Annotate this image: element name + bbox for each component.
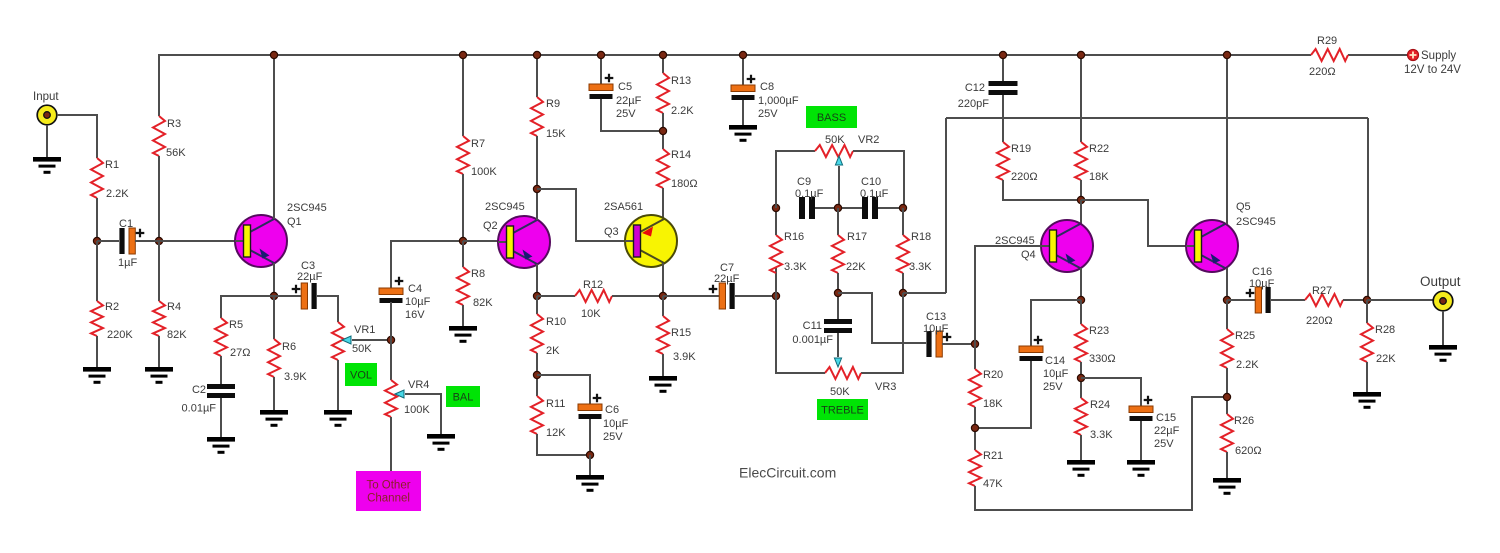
svg-text:Q4: Q4	[1021, 249, 1036, 261]
label BAL box	[446, 386, 480, 407]
wire VR4 wiper to ground	[405, 394, 441, 434]
junction C6 bottom	[586, 451, 593, 458]
potentiometer VR2 50K track	[815, 145, 853, 157]
svg-text:Supply: Supply	[1421, 50, 1456, 62]
svg-text:12V to 24V: 12V to 24V	[1404, 64, 1461, 76]
wire Q3 node to R15	[662, 296, 664, 316]
junction rail R22	[1077, 51, 1084, 58]
resistor R8	[457, 267, 469, 305]
resistor R12	[575, 290, 612, 302]
svg-text:3.3K: 3.3K	[784, 261, 807, 273]
svg-text:1,000µF: 1,000µF	[758, 95, 799, 107]
svg-text:220Ω: 220Ω	[1011, 171, 1038, 183]
wire R21 to feedback bottom	[975, 397, 1227, 510]
wire Q1 emitter down	[273, 263, 275, 296]
wire rail to R22	[1080, 55, 1082, 142]
resistor R25	[1221, 329, 1233, 368]
capacitor C7 22uF	[709, 262, 740, 309]
resistor R2	[91, 301, 103, 336]
svg-text:22µF: 22µF	[1154, 425, 1180, 437]
potentiometer VR4 100K track	[385, 380, 397, 417]
wire node A to R2	[96, 241, 98, 301]
wire node H to R20	[974, 344, 976, 369]
svg-text:22K: 22K	[846, 261, 866, 273]
junction K R20-R21-C14	[971, 424, 978, 431]
input jack J1	[37, 105, 57, 125]
wire R9 to Q2 collector	[536, 136, 538, 220]
node Q5 emitter junction	[1223, 296, 1230, 303]
wire rail to C12	[1002, 55, 1004, 81]
svg-text:C16: C16	[1252, 266, 1272, 278]
ground VR4 wiper	[427, 434, 455, 451]
wire emitter node to R6	[273, 296, 275, 339]
VR4 wiper arrow	[395, 390, 404, 398]
capacitor C10 0.1uF	[860, 176, 889, 219]
svg-text:220K: 220K	[107, 329, 133, 341]
wire VR2 right end down	[853, 151, 904, 208]
wire R5 to C2	[220, 356, 222, 384]
svg-text:R14: R14	[671, 149, 691, 161]
wire junction I to Q5 base	[1081, 200, 1186, 246]
svg-text:220Ω: 220Ω	[1309, 66, 1336, 78]
svg-text:25V: 25V	[1043, 381, 1063, 393]
svg-text:C12: C12	[965, 82, 985, 94]
wire R20 to junction K	[974, 407, 976, 450]
svg-text:R20: R20	[983, 369, 1003, 381]
svg-text:22µF: 22µF	[714, 273, 740, 285]
wire Q5 emitter to C16	[1227, 299, 1255, 301]
wire R7 to Q2 base node	[462, 174, 464, 241]
node Q4 emitter junction	[1077, 296, 1084, 303]
wire Q2 emitter node to R12	[537, 295, 575, 297]
resistor R6	[268, 339, 280, 377]
wire VR1 to ground	[337, 360, 339, 410]
wire C10 right to junction	[878, 207, 903, 209]
capacitor C6 10uF	[578, 394, 629, 443]
node Q2 emitter junction	[533, 292, 540, 299]
svg-text:10µF: 10µF	[405, 296, 431, 308]
svg-text:22µF: 22µF	[616, 95, 642, 107]
capacitor C3 22uF	[292, 260, 323, 309]
resistor R21	[969, 450, 981, 486]
svg-text:C11: C11	[803, 320, 822, 332]
capacitor C16 10uF	[1246, 266, 1275, 313]
capacitor C12 220pF	[958, 81, 1018, 110]
svg-text:2SC945: 2SC945	[485, 201, 525, 213]
wire junction to C6 top	[537, 375, 590, 404]
wire node E down to VR3 left	[776, 296, 825, 373]
svg-text:620Ω: 620Ω	[1235, 445, 1262, 457]
svg-text:R11: R11	[546, 398, 565, 410]
wire rail to C5	[600, 55, 602, 84]
wire VR1 wiper to node C	[352, 339, 391, 341]
wire C9 left junction up to VR2	[776, 151, 815, 208]
wire node B to R4	[158, 241, 160, 301]
junction R13 R14 C5	[659, 127, 666, 134]
wire R12 to Q3 collector node	[612, 295, 663, 297]
svg-text:82K: 82K	[167, 329, 187, 341]
capacitor C5 22uF	[589, 74, 642, 120]
wire R4 to ground	[158, 336, 160, 367]
wire C14 bottom to junction K	[975, 361, 1031, 428]
wire C5 to R13 junction	[601, 99, 663, 131]
resistor R11	[531, 396, 543, 434]
node Q3 collector junction	[659, 292, 666, 299]
wire C11 to VR3 wiper	[837, 333, 839, 357]
resistor R22	[1075, 142, 1087, 180]
label To Other Channel box	[356, 471, 421, 511]
svg-text:10µF: 10µF	[603, 418, 629, 430]
svg-text:22K: 22K	[1376, 353, 1396, 365]
junction I R19-R22-Q4C	[1077, 196, 1084, 203]
wire Q2 emitter to R10	[536, 296, 538, 314]
wire R25 to junction L	[1226, 368, 1228, 414]
wire C8 to ground	[742, 100, 744, 125]
junction G R18-VR3-feedback	[899, 289, 906, 296]
svg-text:Q2: Q2	[483, 220, 498, 232]
wire R15 to ground	[662, 354, 664, 376]
wire R18 to junction G	[902, 273, 904, 293]
wire node C to VR4	[390, 340, 392, 380]
resistor R18	[897, 235, 909, 273]
wire junction to R17	[837, 208, 839, 235]
resistor R17	[832, 235, 844, 273]
svg-text:R19: R19	[1011, 143, 1031, 155]
svg-text:R28: R28	[1375, 324, 1395, 336]
label VOL box	[345, 363, 377, 386]
wire R3 to node B	[158, 156, 160, 241]
ground output jack	[1429, 345, 1457, 362]
svg-text:C2: C2	[192, 384, 206, 396]
svg-text:10µF: 10µF	[923, 323, 949, 335]
wire R14 to Q3 emitter	[662, 188, 664, 219]
svg-text:47K: 47K	[983, 478, 1003, 490]
svg-text:82K: 82K	[473, 297, 493, 309]
svg-text:3.9K: 3.9K	[673, 351, 696, 363]
svg-text:22µF: 22µF	[297, 271, 323, 283]
wire rail to R7	[462, 55, 464, 136]
wire R13 to junction	[662, 113, 664, 149]
svg-text:Channel: Channel	[367, 493, 410, 505]
svg-text:VR4: VR4	[408, 379, 429, 391]
wire rail to R13	[662, 55, 664, 73]
svg-text:C8: C8	[760, 81, 774, 93]
resistor R5	[215, 318, 227, 356]
junction C9-C10-R17	[834, 204, 841, 211]
resistor R24	[1075, 398, 1087, 435]
junction J R23-R24-C15	[1077, 374, 1084, 381]
wire C6 junction to ground	[589, 455, 591, 475]
wire junction G to feedback riser	[903, 292, 946, 294]
svg-text:VR1: VR1	[354, 324, 375, 336]
svg-text:56K: 56K	[166, 147, 186, 159]
wire R6 to ground	[273, 377, 275, 410]
wire input jack to ground	[46, 125, 48, 157]
VR3 wiper arrow	[834, 358, 841, 367]
svg-text:VR3: VR3	[875, 381, 896, 393]
junction rail Q1 collector	[270, 51, 277, 58]
svg-text:3.3K: 3.3K	[909, 261, 932, 273]
svg-text:3.3K: 3.3K	[1090, 429, 1113, 441]
svg-text:C4: C4	[408, 283, 422, 295]
wire rail to supply terminal	[1348, 54, 1408, 56]
svg-text:VR2: VR2	[858, 134, 879, 146]
svg-text:2.2K: 2.2K	[106, 188, 129, 200]
wire Q3 node to C7	[663, 295, 719, 297]
label BASS box	[806, 106, 857, 128]
svg-text:12K: 12K	[546, 427, 566, 439]
resistor R10	[531, 314, 543, 353]
svg-text:R17: R17	[847, 231, 867, 243]
svg-text:Output: Output	[1420, 274, 1461, 289]
capacitor C15 22uF	[1129, 396, 1180, 450]
transistor Q3 2SA561	[625, 215, 677, 267]
wire output node to jack	[1367, 299, 1433, 301]
resistor R16	[770, 235, 782, 273]
svg-text:C15: C15	[1156, 412, 1176, 424]
wire R10 to R11 junction	[536, 353, 538, 396]
svg-text:C5: C5	[618, 81, 632, 93]
supply terminal	[1407, 49, 1418, 60]
wire rail to Q5 collector	[1226, 55, 1228, 224]
ground R6	[260, 410, 288, 427]
svg-text:R7: R7	[471, 138, 485, 150]
svg-text:C1: C1	[119, 218, 133, 230]
wire C1 to Q1 base	[135, 240, 235, 242]
capacitor C11 0.001uF	[792, 319, 852, 346]
junction rail C8	[739, 51, 746, 58]
svg-text:R27: R27	[1312, 285, 1332, 297]
transistor Q1 2SC945	[235, 215, 287, 267]
svg-text:R6: R6	[282, 341, 296, 353]
wire junction G down to VR3 right	[861, 293, 903, 373]
wire Q5 emitter down	[1226, 268, 1228, 300]
junction C9 left	[772, 204, 779, 211]
node A junction C1-R1-R2	[93, 237, 100, 244]
svg-text:15K: 15K	[546, 128, 566, 140]
wire junction I down to Q4 collector	[1080, 200, 1082, 224]
ground R8	[449, 326, 477, 343]
svg-text:0.1µF: 0.1µF	[860, 188, 889, 200]
wire Q4 emitter to C14 top	[1031, 300, 1081, 346]
svg-text:BASS: BASS	[817, 112, 846, 124]
wire R27 to output node	[1343, 299, 1367, 301]
capacitor C8 1000uF	[731, 75, 799, 120]
svg-text:BAL: BAL	[453, 392, 474, 404]
svg-text:50K: 50K	[352, 343, 372, 355]
wire emitter node to C3	[274, 295, 301, 297]
svg-text:Q3: Q3	[604, 226, 619, 238]
potentiometer VR1 50K track	[332, 322, 344, 360]
wire tone left column up	[775, 268, 777, 296]
node Q2 collector junction	[533, 185, 540, 192]
svg-text:2SC945: 2SC945	[287, 202, 327, 214]
svg-text:25V: 25V	[758, 108, 778, 120]
svg-text:25V: 25V	[1154, 438, 1174, 450]
junction rail R13	[659, 51, 666, 58]
ground R4	[145, 367, 173, 384]
output jack J2	[1433, 291, 1453, 311]
svg-text:R2: R2	[105, 301, 119, 313]
wire junction J to C15 top	[1081, 378, 1141, 406]
ground R24	[1067, 460, 1095, 477]
svg-text:18K: 18K	[1089, 171, 1109, 183]
svg-text:18K: 18K	[983, 398, 1003, 410]
transistor Q5 2SC945	[1186, 220, 1238, 272]
svg-text:R22: R22	[1089, 143, 1109, 155]
wire R19 to junction I	[1003, 180, 1081, 200]
VR1 wiper arrow	[342, 336, 351, 344]
label TREBLE box	[817, 399, 868, 420]
capacitor C4 10uF	[379, 277, 431, 321]
wire C9 right to C10 left	[815, 207, 863, 209]
junction rail R7	[459, 51, 466, 58]
resistor R13	[657, 73, 669, 113]
junction L R25-R26-feedback	[1223, 393, 1230, 400]
wire rail left end down to R3	[158, 54, 160, 116]
svg-text:0.001µF: 0.001µF	[792, 334, 833, 346]
svg-text:R15: R15	[671, 327, 691, 339]
resistor R27	[1305, 294, 1343, 306]
svg-text:R13: R13	[671, 75, 691, 87]
wire rail to Q1 collector	[273, 55, 275, 219]
junction rail C5	[597, 51, 604, 58]
node H C13-R20-Q4base	[971, 340, 978, 347]
wire C6 to junction	[589, 419, 591, 455]
svg-text:2K: 2K	[546, 345, 560, 357]
resistor R14	[657, 149, 669, 188]
svg-text:50K: 50K	[830, 386, 850, 398]
svg-text:2SA561: 2SA561	[604, 201, 643, 213]
wire input jack to R1	[57, 115, 97, 158]
ground C8	[729, 125, 757, 142]
svg-text:Input: Input	[33, 91, 59, 103]
ground C15	[1127, 460, 1155, 477]
svg-text:100K: 100K	[404, 404, 430, 416]
svg-text:25V: 25V	[616, 108, 636, 120]
wire C4 top to Q2 base node	[391, 241, 463, 288]
node E tone stack input	[772, 292, 779, 299]
node D junction R7-R8-C4-base	[459, 237, 466, 244]
svg-text:C13: C13	[926, 311, 946, 323]
svg-text:R4: R4	[167, 301, 181, 313]
svg-text:C14: C14	[1045, 355, 1065, 367]
junction rail C12	[999, 51, 1006, 58]
wire Q2 collector to Q3 base	[537, 189, 624, 241]
svg-text:R16: R16	[784, 231, 804, 243]
junction R10 R11 C6	[533, 371, 540, 378]
wire C2 to ground	[220, 398, 222, 437]
wire rail to R9	[536, 55, 538, 97]
wire R28 to ground	[1366, 362, 1368, 392]
wire C7 to tone node	[735, 295, 776, 297]
svg-text:Q5: Q5	[1236, 201, 1251, 213]
wire C16 to R27	[1271, 299, 1305, 301]
svg-text:2.2K: 2.2K	[671, 105, 694, 117]
svg-text:R9: R9	[546, 98, 560, 110]
node output junction	[1363, 296, 1370, 303]
resistor R19	[997, 142, 1009, 180]
wire node D to Q2 base	[463, 240, 498, 242]
svg-text:R18: R18	[911, 231, 931, 243]
wire R8 to ground	[462, 305, 464, 326]
svg-text:1µF: 1µF	[118, 257, 137, 269]
wire Q5 emitter to R25	[1226, 300, 1228, 329]
wire VR2 wiper down to junction	[838, 166, 840, 208]
wire output jack to ground	[1442, 311, 1444, 345]
svg-text:16V: 16V	[405, 309, 425, 321]
svg-text:VOL: VOL	[350, 370, 372, 382]
resistor R9	[531, 97, 543, 136]
resistor R1	[91, 158, 103, 198]
svg-text:R10: R10	[546, 316, 566, 328]
wire C12 to R19	[1002, 95, 1004, 142]
ground VR1	[324, 410, 352, 427]
wire C4 bottom to node C	[390, 302, 392, 340]
ground R28	[1353, 392, 1381, 409]
resistor R4	[153, 301, 165, 336]
svg-text:3.9K: 3.9K	[284, 371, 307, 383]
svg-text:2.2K: 2.2K	[1236, 359, 1259, 371]
wire feedback top horizontal	[946, 117, 1368, 119]
wire Q4 emitter down	[1080, 268, 1082, 300]
svg-text:220pF: 220pF	[958, 98, 989, 110]
wire R16 top to C9 junction	[775, 208, 777, 235]
svg-text:220Ω: 220Ω	[1306, 315, 1333, 327]
svg-text:R29: R29	[1317, 35, 1337, 47]
wire R23 to junction J	[1080, 362, 1082, 398]
wire Q2 emitter down	[536, 264, 538, 296]
junction C10 right	[899, 204, 906, 211]
svg-text:R23: R23	[1089, 325, 1109, 337]
svg-text:10µF: 10µF	[1043, 368, 1069, 380]
svg-text:R12: R12	[583, 279, 603, 291]
svg-text:25V: 25V	[603, 431, 623, 443]
svg-text:C9: C9	[797, 176, 811, 188]
resistor R3	[153, 116, 165, 156]
svg-text:2SC945: 2SC945	[1236, 216, 1276, 228]
wire rail to C8	[742, 55, 744, 85]
potentiometer VR3 50K track	[825, 367, 861, 379]
wire C13 to node H	[942, 343, 975, 345]
resistor R28	[1361, 323, 1373, 362]
resistor R15	[657, 316, 669, 354]
svg-text:R8: R8	[471, 268, 485, 280]
wire R26 to ground	[1226, 452, 1228, 478]
svg-text:R3: R3	[167, 118, 181, 130]
wire junction F to C13 wire	[838, 293, 926, 343]
wire VR4 to other channel box	[390, 417, 392, 471]
wire R17 to junction F	[837, 273, 839, 319]
capacitor C2 0.01uF	[182, 384, 235, 415]
wire output node to R28	[1366, 300, 1368, 323]
ground input jack	[33, 157, 61, 174]
svg-text:R21: R21	[983, 450, 1003, 462]
svg-text:R1: R1	[105, 159, 119, 171]
node B junction C1-R3-R4-base	[155, 237, 162, 244]
svg-text:180Ω: 180Ω	[671, 178, 698, 190]
svg-text:To Other: To Other	[366, 480, 410, 492]
wire emitter node to R5	[221, 296, 274, 318]
svg-text:R5: R5	[229, 319, 243, 331]
junction rail Q5 collector	[1223, 51, 1230, 58]
svg-text:10µF: 10µF	[1249, 278, 1275, 290]
ground C2	[207, 437, 235, 454]
svg-text:10K: 10K	[581, 308, 601, 320]
wire R24 to ground	[1080, 435, 1082, 460]
wire node A to C1	[97, 240, 119, 242]
node C junction wiper-C4-VR4	[387, 336, 394, 343]
